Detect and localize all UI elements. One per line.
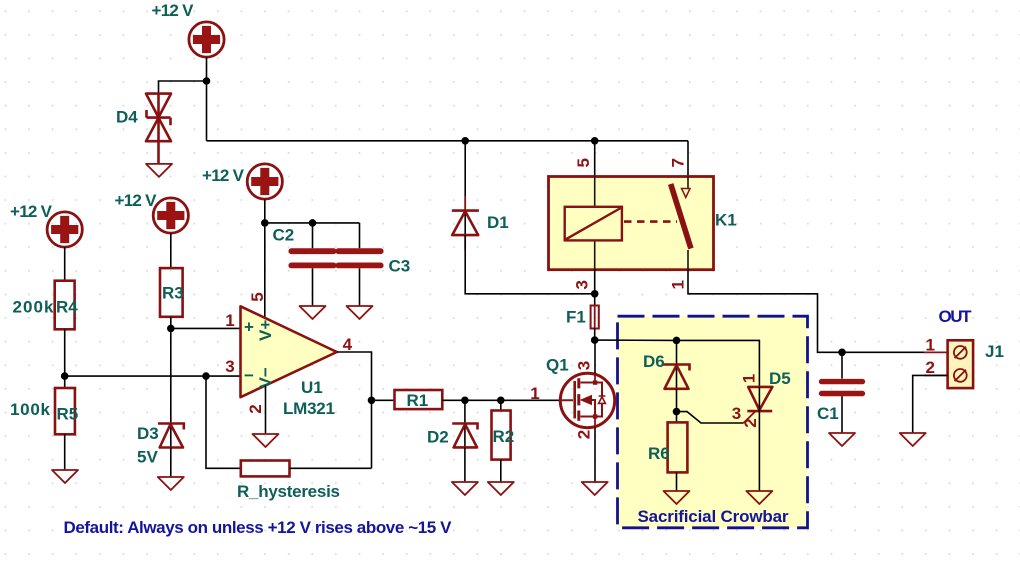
svg-text:1: 1: [225, 311, 234, 330]
svg-text:2: 2: [575, 430, 594, 439]
resistor R3: [160, 268, 184, 317]
ground below U1 pin2: [253, 434, 279, 447]
fuse F1: [566, 306, 599, 329]
svg-text:−: −: [244, 366, 254, 385]
wire K1 pin3 to F1: [594, 270, 596, 306]
wire D1 anode to relay pin3 net: [465, 235, 595, 294]
wire R6 to ground: [676, 472, 678, 491]
pin stub J1 pin1: [924, 351, 948, 353]
diode D1: [452, 211, 509, 236]
diode D3 zener 5V: [137, 424, 184, 467]
wire D4 to ground: [157, 94, 160, 164]
wire C1 to ground: [841, 396, 843, 433]
transistor Q1 NMOS: [546, 356, 615, 440]
ground below D5: [746, 491, 772, 504]
svg-text:D4: D4: [116, 108, 138, 127]
power +12V PWR03 (R3): [115, 191, 189, 233]
svg-text:F1: F1: [566, 308, 586, 327]
ground below Q1: [582, 482, 608, 495]
node divider junction: [61, 372, 69, 380]
wire R2 to ground: [500, 460, 502, 482]
svg-text:D6: D6: [643, 352, 665, 371]
connector J1 OUT: [926, 307, 1004, 388]
svg-text:R1: R1: [407, 391, 429, 410]
wire PWR01 to bus: [206, 57, 208, 141]
svg-text:+12 V: +12 V: [10, 202, 53, 221]
wire D5 to ground: [758, 387, 760, 491]
svg-text:2: 2: [246, 404, 265, 413]
svg-text:V−: V−: [256, 367, 275, 388]
svg-text:+12 V: +12 V: [202, 166, 245, 185]
resistor R5 100k: [10, 388, 78, 434]
node C1 junction: [838, 349, 846, 357]
svg-text:Sacrificial Crowbar: Sacrificial Crowbar: [638, 507, 789, 526]
svg-text:V+: V+: [256, 320, 275, 341]
pin stub J1 pin2: [924, 374, 948, 376]
node K1 pin5 bus junction: [591, 137, 599, 145]
svg-text:2: 2: [926, 358, 935, 377]
node D1 bus junction: [461, 137, 469, 145]
svg-text:C1: C1: [817, 404, 839, 423]
power +12V PWR04 (U1 supply): [202, 164, 282, 199]
wire J1 pin2 to ground: [913, 375, 948, 433]
ground below R2: [488, 482, 514, 495]
wire U1 output pin4: [337, 352, 372, 468]
wire output to R1: [372, 399, 395, 401]
node supply junction: [261, 219, 269, 227]
svg-text:1: 1: [530, 384, 539, 403]
ground below D2: [452, 482, 478, 495]
wire supply to C2/C3: [265, 222, 360, 224]
node junction at +12V/D4: [203, 77, 211, 85]
wire junction to D4: [159, 81, 207, 94]
svg-text:7: 7: [669, 158, 688, 167]
svg-text:Q1: Q1: [546, 356, 569, 375]
wire PWR03 to R3: [170, 233, 172, 268]
wire U1 pin2 to ground: [265, 386, 267, 435]
svg-text:R4: R4: [56, 297, 78, 316]
svg-text:R6: R6: [648, 444, 670, 463]
svg-text:C2: C2: [273, 226, 295, 245]
ground below C3: [347, 306, 373, 319]
pin stub D1: [464, 196, 466, 250]
svg-text:OUT: OUT: [939, 307, 973, 326]
svg-text:4: 4: [343, 335, 353, 354]
diode D2 zener: [427, 424, 478, 448]
wire R2 top: [500, 400, 502, 410]
wire R4 to R5: [64, 329, 66, 388]
svg-text:R5: R5: [57, 404, 79, 423]
wire C3 top: [359, 223, 361, 248]
svg-text:D1: D1: [487, 213, 509, 232]
ground below C1: [829, 433, 855, 446]
power +12V PWR02 (R4 divider): [10, 202, 82, 247]
node R2 junction: [497, 397, 505, 405]
wire R3 junction down to D3: [170, 328, 172, 447]
ground below R5: [52, 470, 78, 483]
wire D2 to ground: [464, 447, 466, 482]
svg-text:D2: D2: [427, 428, 449, 447]
node D6/R6/gate junction: [673, 408, 681, 416]
wire hysteresis right leg: [290, 467, 372, 469]
Sacrificial Crowbar box: [618, 316, 808, 528]
svg-text:R3: R3: [162, 284, 184, 303]
wire crowbar feed: [595, 340, 760, 387]
node D2 junction: [461, 397, 469, 405]
diode D6 zener: [643, 352, 690, 389]
svg-text:R_hysteresis: R_hysteresis: [237, 482, 340, 501]
wire D6 top: [676, 340, 678, 388]
wire D6 to R6 junction: [676, 389, 678, 423]
capacitor C1: [817, 382, 863, 423]
svg-text:1: 1: [669, 280, 688, 289]
wire R1 to Q1 gate: [442, 399, 561, 401]
wire divider to U1 pin3: [65, 375, 241, 377]
resistor R2: [492, 411, 515, 460]
resistor R6: [648, 422, 687, 472]
power +12V PWR01 (top): [152, 1, 225, 57]
wire R3 to U1 pin1: [171, 317, 241, 329]
ground below R6: [664, 491, 690, 504]
wire Q1 source to ground: [594, 428, 596, 482]
svg-text:3: 3: [732, 404, 741, 423]
wire Q1 drain up: [594, 340, 596, 373]
resistor R_hysteresis: [237, 461, 340, 502]
svg-text:+: +: [244, 318, 254, 337]
wire D3 to ground: [170, 448, 172, 478]
wire F1 to Q1 drain node: [594, 329, 596, 341]
wire C2 to ground: [312, 268, 314, 306]
svg-text:5V: 5V: [137, 448, 158, 467]
node output junction: [368, 397, 376, 405]
wire main bus y=140.8: [207, 140, 689, 142]
capacitor C2: [273, 226, 334, 266]
diode D4 (bidirectional TVS): [116, 94, 171, 142]
svg-text:100k: 100k: [10, 400, 51, 419]
svg-text:5: 5: [574, 158, 593, 167]
ground below J1 pin2: [900, 433, 926, 446]
wire hysteresis left leg: [206, 376, 241, 468]
svg-text:LM321: LM321: [283, 399, 335, 418]
svg-text:K1: K1: [715, 211, 737, 230]
wire R5 to ground: [64, 434, 66, 470]
node pin3 hysteresis junction: [202, 372, 210, 380]
svg-text:+12 V: +12 V: [152, 1, 195, 20]
ground below C2: [300, 306, 326, 319]
resistor R4 200k: [13, 281, 79, 330]
svg-text:J1: J1: [985, 342, 1004, 361]
svg-text:200k: 200k: [13, 297, 55, 316]
wire C3 to ground: [359, 268, 361, 306]
wire PWR02 to R4: [64, 247, 66, 281]
ground below D3: [158, 477, 184, 490]
node R3/D3/pin1 junction: [167, 325, 175, 333]
wire C2 top: [312, 223, 314, 248]
wire PWR04 down to U1 pin5: [264, 199, 266, 318]
svg-text:U1: U1: [301, 378, 323, 397]
wire K1 pin1 to output: [688, 270, 948, 353]
svg-text:5: 5: [248, 292, 267, 301]
node K1 pin3 junction: [591, 290, 599, 298]
wire bus to K1 pin5 and pin7: [595, 141, 688, 177]
node C2 junction: [309, 219, 317, 227]
op-amp U1 LM321: [225, 292, 352, 418]
ground below D4: [146, 164, 172, 177]
svg-text:1: 1: [740, 374, 759, 383]
svg-text:2: 2: [741, 418, 760, 427]
wire bus to D1: [464, 141, 466, 235]
svg-text:+12 V: +12 V: [115, 191, 158, 210]
svg-text:3: 3: [575, 361, 594, 370]
wire C1 top: [841, 352, 843, 378]
node F1/Q1/crowbar junction: [591, 336, 599, 344]
node D6 top junction: [673, 337, 681, 345]
relay K1: [549, 158, 737, 289]
svg-text:R2: R2: [493, 427, 515, 446]
capacitor C3: [338, 251, 410, 275]
wire D2 top: [464, 400, 466, 447]
svg-text:3: 3: [573, 280, 592, 289]
svg-text:D5: D5: [769, 369, 791, 388]
svg-text:Default: Always on unless +12: Default: Always on unless +12 V rises ab…: [64, 518, 453, 537]
svg-text:C3: C3: [389, 257, 411, 276]
svg-text:D3: D3: [137, 424, 159, 443]
thyristor D5: [732, 369, 791, 428]
svg-text:3: 3: [225, 357, 234, 376]
resistor R1: [395, 390, 443, 410]
wire gate of D5: [677, 412, 744, 423]
